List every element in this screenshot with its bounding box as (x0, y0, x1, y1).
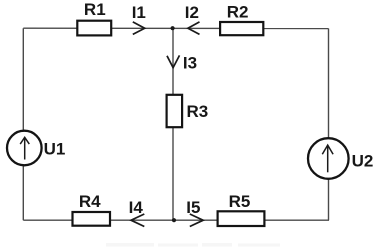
wire left side vertical (22, 28, 24, 220)
current arrow I1 (132, 3, 146, 35)
wire top from left corner to right corner (23, 27, 328, 29)
svg-text:R1: R1 (84, 0, 106, 19)
current arrow I4 (129, 198, 145, 227)
node top junction (171, 26, 175, 30)
svg-text:I4: I4 (129, 198, 144, 217)
svg-text:R4: R4 (79, 192, 101, 211)
resistor R4 (73, 192, 111, 226)
svg-text:R3: R3 (187, 102, 209, 121)
current arrow I3 (167, 53, 197, 72)
svg-text:R2: R2 (227, 3, 249, 22)
current arrow I2 (185, 3, 200, 35)
svg-text:I5: I5 (186, 198, 200, 217)
resistor R1 (77, 0, 111, 35)
svg-text:I3: I3 (183, 53, 197, 72)
resistor R3 (167, 95, 209, 127)
svg-text:I1: I1 (132, 3, 146, 22)
voltage source U2 (308, 138, 373, 179)
node bottom junction (172, 218, 176, 222)
wire middle vertical (172, 28, 174, 220)
svg-text:U1: U1 (44, 140, 66, 159)
svg-text:I2: I2 (185, 3, 199, 22)
wire right side vertical (328, 29, 330, 221)
resistor R2 (220, 3, 263, 36)
resistor R5 (218, 192, 265, 226)
svg-text:R5: R5 (229, 192, 251, 211)
wire bottom (23, 219, 329, 221)
faint cropped caption remnant (106, 243, 280, 247)
current arrow I5 (186, 198, 203, 227)
svg-text:U2: U2 (352, 152, 374, 171)
voltage source U1 (7, 131, 65, 166)
